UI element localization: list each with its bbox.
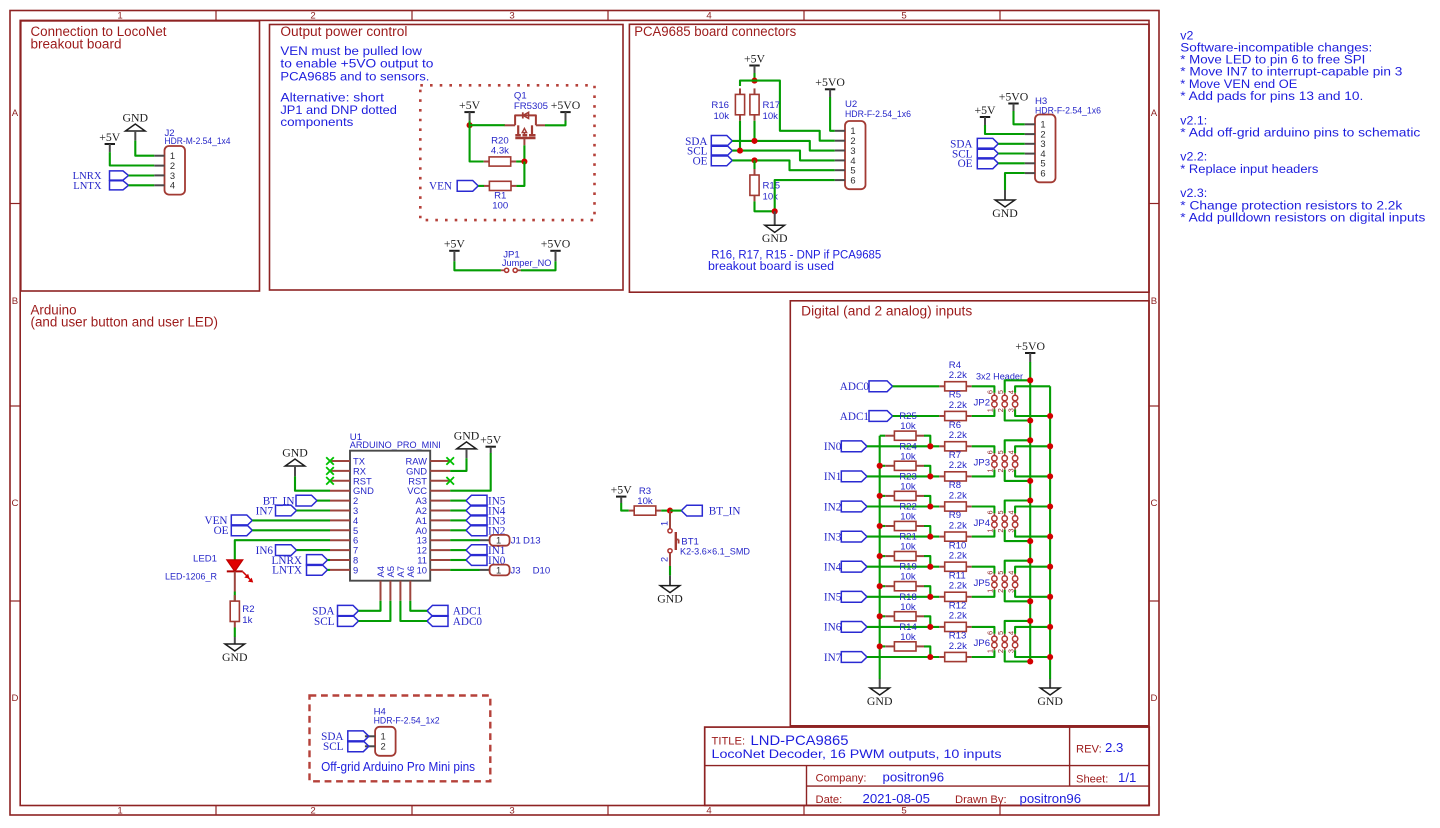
svg-text:1: 1	[496, 564, 501, 575]
frame row ticks left	[10, 204, 20, 602]
svg-text:Jumper_NO: Jumper_NO	[502, 258, 552, 269]
global label SCL at H3	[952, 148, 998, 160]
svg-text:HDR-F-2.54_1x6: HDR-F-2.54_1x6	[845, 109, 911, 120]
global label SCL at U1 A5	[314, 616, 359, 628]
svg-text:breakout board is used: breakout board is used	[708, 259, 834, 273]
wire BT_IN to pin 2	[317, 500, 330, 502]
wire IN3 to JP4 pin 1	[972, 530, 995, 537]
section title Connection to LocoNet	[31, 24, 167, 52]
wire +5V node to R16	[740, 81, 755, 86]
wire IN7 to JP6 pin 1	[972, 650, 995, 657]
junction JP6 +5VO bottom	[1027, 658, 1033, 664]
wire IN6 to JP6 pin 6	[972, 627, 995, 634]
title block TITLE text	[712, 733, 1002, 761]
note VEN must be pulled low	[280, 44, 433, 84]
global label IN5	[824, 591, 867, 603]
junction JP5 GND rail top	[1047, 564, 1053, 570]
wire JP3 pin 5 to +5VO rail	[1005, 440, 1030, 453]
section title PCA9685 board connectors	[634, 24, 796, 39]
junction R25 input node	[927, 443, 933, 449]
global label IN6	[824, 622, 867, 634]
svg-text:4: 4	[1006, 510, 1015, 514]
svg-text:2: 2	[996, 589, 1005, 593]
sheet frame inner border	[20, 20, 1149, 805]
wire LNRX to J2 pin 3	[129, 174, 155, 176]
note Alternative short JP1	[280, 91, 397, 129]
svg-text:PCA9685 and to sensors.: PCA9685 and to sensors.	[280, 69, 429, 83]
wire JP5 pin 2 to +5VO rail	[1005, 590, 1030, 601]
wire LNTX to J2 pin 4	[129, 184, 155, 186]
wire ADC1 to A6	[410, 601, 427, 611]
section box Connection to LocoNet	[21, 21, 260, 291]
junction JP6 +5VO top	[1027, 618, 1033, 624]
wire JP2 pin 2 to +5VO rail	[1005, 409, 1030, 420]
svg-text:1: 1	[986, 468, 995, 472]
svg-text:IN4: IN4	[824, 562, 842, 574]
junction R19 input node	[927, 594, 933, 600]
svg-text:2: 2	[996, 529, 1005, 533]
wire +5V node to U2 pin 2 route	[755, 81, 835, 141]
ground GND right rail	[1037, 679, 1063, 708]
wire R24 to GND rail	[880, 465, 886, 467]
frame column labels bottom	[117, 805, 906, 816]
wire R23 to GND rail	[880, 495, 886, 497]
button BT1 K2-3.6x6.1_SMD	[660, 511, 751, 566]
power +5VO input rail	[1015, 339, 1045, 362]
svg-text:1: 1	[986, 408, 995, 412]
wire IN2 to R8	[867, 505, 939, 507]
svg-text:2: 2	[310, 11, 315, 22]
global label IN1	[824, 471, 867, 483]
junction JP4 GND rail top	[1047, 503, 1053, 509]
svg-text:3: 3	[509, 11, 514, 22]
global label IN1 at U1 pin 12	[466, 545, 505, 557]
resistor R7 2.2k	[939, 450, 971, 481]
wire SCL to H3 pin 4	[998, 152, 1025, 154]
svg-text:A: A	[12, 108, 19, 119]
wire R18 to GND rail	[880, 615, 886, 617]
svg-text:2.2k: 2.2k	[949, 641, 967, 652]
wire IN4 to R10	[867, 566, 939, 568]
section box PCA9685 board connectors	[629, 24, 1149, 292]
svg-text:100: 100	[492, 201, 508, 212]
svg-text:IN1: IN1	[824, 471, 841, 483]
power +5V at J2	[99, 130, 121, 152]
global label IN4 at U1 A2	[466, 505, 506, 517]
ic U1 ARDUINO_PRO_MINI	[330, 432, 450, 601]
svg-text:positron96: positron96	[883, 770, 945, 785]
svg-text:3: 3	[509, 805, 514, 816]
svg-text:LED1: LED1	[193, 554, 217, 565]
svg-text:2.2k: 2.2k	[949, 520, 967, 531]
wire +5V to junction	[753, 73, 755, 81]
global label ADC1	[840, 411, 893, 423]
wire JP2 pin 4 to GND rail	[1015, 386, 1050, 393]
svg-text:2.3: 2.3	[1105, 740, 1123, 755]
svg-text:breakout board: breakout board	[31, 37, 122, 52]
global label IN7 at U1 pin 3	[256, 505, 297, 517]
wire pin 12 to IN1	[450, 549, 466, 551]
resistor R6 2.2k	[939, 420, 971, 451]
junction R23 input node	[927, 503, 933, 509]
no-connect X on TX RX RST left	[326, 457, 334, 484]
svg-text:5: 5	[996, 631, 1005, 635]
svg-text:JP6: JP6	[974, 638, 991, 649]
wire R25 to input node	[924, 436, 930, 447]
svg-text:GND: GND	[657, 591, 683, 605]
ground GND left rail	[867, 679, 893, 708]
svg-text:SCL: SCL	[314, 616, 335, 628]
junction R23 GND rail	[877, 493, 883, 499]
svg-text:R16: R16	[711, 100, 729, 111]
wire JP5 pin 5 to +5VO rail	[1005, 561, 1030, 574]
svg-text:OE: OE	[693, 155, 708, 167]
wire pin 13 to J1 pad	[450, 539, 489, 541]
wire R19 to input node	[924, 586, 930, 597]
connector H4 HDR-F-2.54_1x2	[365, 706, 440, 756]
svg-text:+5VO: +5VO	[815, 75, 845, 89]
resistor R21 10k pulldown	[885, 532, 924, 561]
svg-text:3: 3	[1006, 589, 1015, 593]
svg-text:+5VO: +5VO	[541, 237, 571, 251]
wire H3 pin 6 to GND	[1005, 173, 1025, 190]
svg-text:1k: 1k	[242, 615, 252, 626]
global label SDA at U2	[685, 136, 732, 148]
frame column ticks bottom	[216, 806, 1000, 816]
svg-text:1: 1	[117, 805, 122, 816]
svg-text:(and user button and user LED): (and user button and user LED)	[31, 315, 219, 330]
ground GND below R2	[222, 637, 248, 664]
global label LNRX at U1 pin 8	[272, 555, 328, 567]
dashed outline box H4	[310, 696, 491, 782]
wire Q1 gate to R20 junction	[523, 145, 525, 161]
junction R18 GND rail	[877, 613, 883, 619]
junction JP6 GND rail bottom	[1047, 654, 1053, 660]
junction R22 GND rail	[877, 523, 883, 529]
global label IN6 at U1 pin 7	[256, 545, 297, 557]
svg-text:10k: 10k	[900, 451, 916, 462]
wire +5V to J2 pin 2	[110, 152, 155, 165]
svg-text:2: 2	[310, 805, 315, 816]
svg-text:5: 5	[901, 11, 906, 22]
global label LNTX at U1 pin 9	[272, 565, 327, 577]
wire JP1 pin 2 to +5VO	[521, 261, 556, 270]
wire R14 to input node	[924, 646, 930, 657]
title block outline	[705, 727, 1149, 805]
svg-text:4: 4	[1006, 390, 1015, 394]
junction JP3 +5VO bottom	[1027, 478, 1033, 484]
svg-text:J3: J3	[510, 565, 520, 576]
wire IN5 to R11	[867, 596, 939, 598]
svg-text:IN7: IN7	[824, 652, 842, 664]
svg-text:Date:: Date:	[816, 794, 843, 806]
ground GND at H3	[992, 190, 1018, 220]
wire ADC0 to R4	[893, 385, 940, 387]
note R16 R17 R15 DNP	[708, 247, 881, 273]
led LED1 LED-1206_R	[165, 554, 253, 583]
svg-text:6: 6	[986, 390, 995, 394]
svg-text:+5V: +5V	[611, 482, 633, 496]
note Off-grid Arduino Pro Mini pins	[321, 760, 475, 774]
resistor R8 2.2k	[939, 480, 971, 511]
resistor R3 10k	[629, 486, 661, 515]
wire +5V to H3 pin 2	[985, 125, 1025, 134]
resistor R12 2.2k	[939, 601, 971, 632]
svg-text:GND: GND	[282, 446, 308, 460]
svg-text:Drawn By:: Drawn By:	[955, 794, 1007, 806]
svg-text:REV:: REV:	[1076, 744, 1102, 756]
svg-text:B: B	[12, 296, 18, 307]
svg-text:4: 4	[1006, 631, 1015, 635]
svg-text:6: 6	[986, 631, 995, 635]
junction JP2 +5VO bottom	[1027, 417, 1033, 423]
svg-text:10k: 10k	[900, 602, 916, 613]
wire IN4 to JP5 pin 6	[972, 567, 995, 574]
junction R19 GND rail	[877, 583, 883, 589]
wire R22 to GND rail	[880, 525, 886, 527]
junction SCL/R16	[737, 148, 743, 154]
wire OE to H3 pin 5	[998, 162, 1025, 164]
svg-text:4: 4	[706, 805, 712, 816]
svg-text:LED-1206_R: LED-1206_R	[165, 572, 217, 583]
wire JP4 pin 5 to +5VO rail	[1005, 501, 1030, 514]
power +5V pullup rail	[744, 51, 766, 73]
svg-text:3: 3	[1006, 529, 1015, 533]
wire +5V junction to Q1 source	[470, 124, 505, 126]
power +5VO at Q1 drain	[551, 98, 581, 121]
svg-text:3: 3	[1006, 649, 1015, 653]
wire SDA to U2 pin 3	[732, 141, 835, 151]
svg-text:1: 1	[986, 649, 995, 653]
wire R19 to GND rail	[880, 585, 886, 587]
jumper header JP5 3x2	[974, 571, 1018, 593]
svg-text:2.2k: 2.2k	[949, 460, 967, 471]
wire +5V to JP1 pin 1	[454, 261, 501, 270]
svg-text:10k: 10k	[763, 111, 779, 122]
global label IN4	[824, 561, 867, 573]
global label IN7	[824, 652, 867, 664]
global label OE at U1 pin 5	[214, 525, 253, 537]
junction JP5 +5VO bottom	[1027, 598, 1033, 604]
wire JP2 pin 3 to GND rail	[1015, 409, 1050, 416]
global label SDA at H4	[321, 731, 369, 743]
svg-text:1: 1	[660, 521, 670, 526]
wire JP4 pin 3 to GND rail	[1015, 530, 1050, 537]
svg-text:9: 9	[353, 564, 358, 575]
power +5V at Q1 source	[459, 98, 481, 121]
svg-text:2: 2	[381, 741, 386, 752]
title block Sheet	[1076, 770, 1136, 786]
svg-text:10k: 10k	[714, 111, 730, 122]
wire IN1 to R7	[867, 475, 939, 477]
global label IN3 at U1 A1	[466, 515, 506, 527]
svg-text:D13: D13	[523, 536, 541, 547]
wire LNRX to pin 8	[328, 559, 331, 561]
wire IN7 to R13	[867, 656, 939, 658]
svg-text:* Add pulldown resistors on di: * Add pulldown resistors on digital inpu…	[1180, 210, 1425, 224]
svg-text:IN7: IN7	[256, 505, 274, 517]
svg-text:R17: R17	[763, 100, 781, 111]
wire IN0 to R6	[867, 445, 939, 447]
junction R24 input node	[927, 473, 933, 479]
wire SDA to H3 pin 3	[998, 143, 1025, 145]
wire +5V stub to junction	[469, 121, 471, 126]
svg-text:10k: 10k	[900, 481, 916, 492]
junction R18 input node	[927, 624, 933, 630]
svg-text:3: 3	[1006, 468, 1015, 472]
junction JP3 GND rail top	[1047, 443, 1053, 449]
resistor R4 2.2k	[939, 360, 971, 391]
svg-text:+5V: +5V	[459, 98, 481, 112]
pad J1 D13	[490, 535, 541, 547]
junction JP4 +5VO bottom	[1027, 538, 1033, 544]
svg-text:2: 2	[660, 557, 670, 562]
resistor R13 2.2k	[939, 631, 971, 662]
wire IN6 to R12	[867, 626, 939, 628]
connector U2 HDR-F-2.54_1x6	[835, 99, 911, 189]
global label LNRX	[73, 171, 129, 182]
svg-text:GND: GND	[1037, 694, 1063, 708]
section title Output power control	[280, 24, 407, 39]
svg-text:+5VO: +5VO	[1015, 339, 1045, 353]
wire +5VO to H3 pin 1	[1014, 111, 1025, 124]
resistor R2 1k	[230, 595, 254, 627]
wire R21 to GND rail	[880, 555, 886, 557]
svg-text:5: 5	[996, 390, 1005, 394]
svg-text:ADC1: ADC1	[840, 411, 869, 423]
svg-text:1: 1	[986, 529, 995, 533]
wire JP6 pin 5 to +5VO rail	[1005, 621, 1030, 634]
svg-text:+5V: +5V	[974, 103, 996, 117]
svg-text:OE: OE	[214, 525, 229, 537]
resistor R25 10k pulldown	[885, 411, 924, 440]
svg-text:6: 6	[850, 175, 855, 186]
wire R23 to input node	[924, 496, 930, 507]
svg-text:JP5: JP5	[974, 578, 991, 589]
global label OE at H3	[958, 158, 999, 170]
svg-text:IN6: IN6	[824, 622, 842, 634]
svg-text:6: 6	[1040, 168, 1045, 179]
svg-text:BT_IN: BT_IN	[709, 506, 741, 518]
wire GND to U1 GND pin	[295, 476, 330, 490]
wire IN7 to pin 3	[297, 509, 331, 511]
resistor R23 10k pulldown	[885, 471, 924, 500]
wire OE junction to R15	[753, 160, 755, 169]
svg-text:A6: A6	[405, 566, 416, 577]
svg-text:2.2k: 2.2k	[949, 400, 967, 411]
svg-text:+5VO: +5VO	[551, 98, 581, 112]
junction JP3 +5VO top	[1027, 437, 1033, 443]
title block REV	[1076, 740, 1123, 756]
wire GND to U1 GND right pin	[450, 458, 466, 471]
svg-text:6: 6	[986, 510, 995, 514]
svg-text:6: 6	[986, 571, 995, 575]
global label LNTX	[73, 181, 128, 192]
wire OE to U2 pin 5	[732, 160, 835, 170]
global label IN0	[824, 441, 867, 453]
svg-text:2.2k: 2.2k	[949, 581, 967, 592]
wire A1 to IN3	[450, 519, 466, 521]
svg-text:2: 2	[996, 649, 1005, 653]
section title Arduino	[31, 303, 219, 330]
svg-text:R15: R15	[763, 181, 781, 192]
resistor R11 2.2k	[939, 570, 971, 601]
wire IN1 to JP3 pin 1	[972, 470, 995, 477]
global label IN2	[824, 501, 867, 513]
svg-text:OE: OE	[958, 158, 973, 170]
svg-text:1: 1	[496, 535, 501, 546]
svg-text:2.2k: 2.2k	[949, 490, 967, 501]
svg-text:LNTX: LNTX	[73, 181, 102, 192]
wire VEN to pin 4	[252, 519, 330, 521]
frame row labels left	[12, 108, 19, 704]
svg-text:10: 10	[417, 564, 427, 575]
svg-text:JP2: JP2	[974, 397, 991, 408]
svg-text:GND: GND	[867, 694, 893, 708]
resistor R22 10k pulldown	[885, 502, 924, 531]
svg-text:ARDUINO_PRO_MINI: ARDUINO_PRO_MINI	[350, 440, 441, 451]
junction R24 GND rail	[877, 463, 883, 469]
svg-text:D10: D10	[533, 565, 551, 576]
svg-text:+5V: +5V	[744, 51, 766, 65]
wire R18 to input node	[924, 616, 930, 627]
note 3x2 Header	[976, 372, 1024, 383]
junction at +5V node	[467, 122, 473, 128]
global label SDA at H3	[950, 138, 998, 150]
power +5V at R3	[611, 482, 633, 503]
svg-text:R2: R2	[242, 604, 254, 615]
ground GND left of U1 (rotated)	[282, 446, 308, 477]
resistor R18 10k pulldown	[885, 592, 924, 621]
svg-text:GND: GND	[222, 650, 248, 664]
junction OE/R15	[751, 157, 757, 163]
wire +5VO rail vertical	[1029, 362, 1031, 662]
global label ADC0	[840, 381, 893, 393]
wire ADC1 to JP2 pin 1	[972, 409, 995, 416]
junction JP2 GND rail bottom	[1047, 413, 1053, 419]
wire R1 to gate junction	[516, 162, 524, 186]
global label IN3	[824, 531, 867, 543]
svg-text:+5V: +5V	[444, 237, 466, 251]
wire GND to J2 pin 1	[135, 141, 154, 156]
wire JP4 pin 2 to +5VO rail	[1005, 530, 1030, 541]
wire R3 to junction	[661, 510, 670, 512]
wire R22 to input node	[924, 526, 930, 537]
wire SDA to A4	[359, 601, 381, 611]
svg-text:GND: GND	[762, 231, 788, 245]
svg-text:2.2k: 2.2k	[949, 370, 967, 381]
svg-text:D: D	[12, 693, 19, 704]
wire LED1 to R2	[234, 571, 236, 601]
wire R21 to input node	[924, 556, 930, 567]
ground GND below BT1	[657, 575, 683, 605]
svg-text:GND: GND	[992, 206, 1018, 220]
global label BT_IN at button	[681, 505, 740, 517]
frame row labels right	[1151, 108, 1158, 704]
sheet frame outer border	[10, 11, 1159, 816]
svg-text:K2-3.6×6.1_SMD: K2-3.6×6.1_SMD	[680, 547, 750, 558]
wire ADC0 to JP2 pin 6	[972, 386, 995, 393]
svg-text:Q1: Q1	[514, 90, 527, 101]
svg-text:JP4: JP4	[974, 518, 991, 529]
global label ADC0 at U1 A7	[427, 616, 482, 628]
svg-text:2: 2	[996, 408, 1005, 412]
junction JP4 GND rail bottom	[1047, 534, 1053, 540]
svg-text:B: B	[1151, 296, 1157, 307]
svg-text:GND: GND	[454, 429, 480, 443]
wire IN5 to JP5 pin 1	[972, 590, 995, 597]
svg-text:SCL: SCL	[323, 741, 344, 753]
